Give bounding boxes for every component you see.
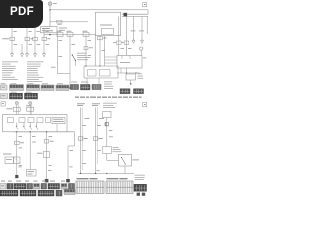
component pair label text bbox=[3, 153, 12, 156]
connector photo P1 bbox=[1, 85, 8, 90]
bottom-left connector row B1 bbox=[0, 190, 18, 196]
wire: vertical trunk x70 bbox=[69, 35, 71, 88]
wire: bottom horizontal fig2 bbox=[78, 172, 134, 174]
wire: fig2 elbow x74 bbox=[74, 132, 76, 146]
wire: fig2 sub-branch 4 bbox=[35, 123, 37, 127]
wire: fig2 vertical x46 bbox=[46, 132, 48, 179]
fuse F2 on bus bbox=[67, 33, 73, 37]
inline connector symbol bbox=[105, 123, 109, 126]
wire: left branch vertical 3 bbox=[34, 28, 36, 53]
net arrow branch 2 bbox=[141, 16, 143, 40]
fuse row box 4 bbox=[37, 118, 43, 123]
wire: tap horizontal 2 bbox=[105, 59, 118, 61]
connector photo P2 bbox=[10, 85, 24, 91]
node 2 figure marker right bbox=[143, 103, 147, 107]
bottom-left connector row B3 bbox=[38, 190, 54, 196]
node A4 off-page arrow bbox=[34, 52, 37, 57]
pinout table T1 bbox=[76, 181, 104, 193]
gauge box fig2 bbox=[103, 112, 112, 118]
wire code tick x17 bbox=[19, 164, 22, 167]
wire: main feed vertical from battery bbox=[49, 6, 51, 27]
bottom-left connector row B2 bbox=[20, 190, 36, 196]
fuse F4 left branch bbox=[10, 37, 15, 40]
fuse F1 on bus bbox=[57, 33, 63, 37]
wire: fig2 sub-branch 3 bbox=[29, 123, 31, 127]
wire: fig2 vertical x30 lower bbox=[29, 132, 31, 170]
motor label text bbox=[135, 174, 145, 177]
bottom-left connector row A8 bbox=[61, 184, 67, 190]
starter internal contact bbox=[122, 158, 126, 164]
wire: relay drop to diode line bbox=[120, 68, 122, 73]
bottom-left connector row A1 bbox=[0, 184, 6, 190]
motor terminal lug 1 bbox=[137, 193, 140, 196]
connector C-31 inline bbox=[117, 41, 122, 44]
switch S2 fig2 bbox=[23, 126, 25, 129]
fusible link symbol above x30 bbox=[29, 101, 32, 104]
fuse row box 5 bbox=[46, 118, 51, 123]
PDF badge overlay bbox=[0, 0, 43, 28]
mid connector photo Q2 bbox=[81, 85, 91, 90]
wire: fig2 left vertical pair 1 bbox=[16, 105, 18, 115]
fuse row box 1 bbox=[8, 118, 14, 123]
relay K2 internal tick 1 bbox=[121, 56, 123, 60]
connector C-12 inline bbox=[84, 47, 88, 50]
wire: vertical trunk x57 bbox=[56, 33, 58, 74]
switch S4 fig2 bbox=[36, 126, 38, 129]
wire: left branch vertical 1 bbox=[11, 28, 13, 53]
connector C-23 inline label bbox=[57, 20, 63, 23]
gauge text block fig2 bbox=[103, 102, 117, 105]
bottom-left connector row A2 bbox=[7, 184, 13, 190]
wire: tap horizontal 1 bbox=[105, 56, 118, 58]
connector photo P7 label bbox=[11, 91, 17, 94]
note text block mid bbox=[104, 81, 112, 84]
node 2 figure marker left bbox=[1, 102, 5, 106]
wire: right vertical 2 bbox=[126, 16, 128, 55]
bottom-left connector row A7 bbox=[48, 184, 60, 190]
wire: gauge drop bbox=[106, 118, 108, 147]
connector label C-05 bbox=[51, 66, 56, 69]
bottom-left connector row B4 bbox=[56, 190, 62, 196]
wire: extra left branch vertical bbox=[21, 44, 23, 53]
wire: vertical trunk x100 bbox=[99, 36, 101, 66]
junction block comb top bus bbox=[122, 13, 148, 15]
wire tick label bottom bbox=[96, 169, 99, 172]
wire: fig2 right vertical pair A bbox=[80, 108, 82, 174]
connector photo P3 label bbox=[28, 82, 34, 85]
wire: elbow to x70 bbox=[57, 73, 70, 75]
bottom label row bbox=[1, 180, 65, 183]
relay K1 inner coil box bbox=[102, 29, 114, 35]
junction dots lower bbox=[126, 72, 127, 73]
wire code labels scattered fig2 bbox=[19, 125, 113, 167]
connector photo P6 bbox=[1, 94, 8, 99]
wire: switch drop to box bbox=[75, 61, 77, 66]
wire: right vertical to relay bbox=[118, 16, 120, 55]
bottom-left connector row A4 bbox=[27, 184, 33, 190]
wire: left branch vertical 4 bbox=[43, 28, 45, 53]
node A1 off-page arrow bbox=[11, 52, 14, 57]
node 1 figure marker bbox=[143, 3, 147, 7]
connector label x40 bbox=[37, 152, 43, 155]
mid connector photo Q1 bbox=[71, 85, 79, 90]
connector photo P5 label bbox=[57, 82, 63, 85]
bottom-left connector row A5 bbox=[34, 184, 40, 190]
wire: comb pin far right bbox=[146, 16, 148, 34]
junction dot x70 bottom bbox=[69, 87, 71, 89]
ignition switch SW1 bbox=[72, 55, 75, 60]
wire code label x30 bbox=[32, 141, 36, 144]
wire: top bus right drop bbox=[147, 10, 149, 14]
battery B+ feed symbol bbox=[48, 2, 52, 6]
junction ticks bottom bbox=[80, 173, 81, 174]
fuse F5 left branch bbox=[25, 37, 30, 40]
junction block J/B box bbox=[84, 66, 118, 78]
wire: vertical trunk x86 bbox=[85, 35, 87, 66]
connector photo P2 label bbox=[11, 82, 17, 85]
wire: to starter bbox=[106, 154, 108, 161]
wire: fig2 sub-branch 2 bbox=[23, 123, 25, 127]
relay K1 internal label bbox=[100, 24, 112, 27]
wire: top horizontal bus to right edge bbox=[50, 9, 148, 11]
bottom-left connector row B5 bbox=[64, 189, 75, 195]
relay box K2 outline bbox=[117, 56, 142, 69]
net label above pair A bbox=[77, 102, 85, 105]
connector photo P3 bbox=[27, 85, 40, 91]
ignition switch label text bbox=[77, 52, 87, 55]
node A5 off-page arrow bbox=[43, 52, 46, 57]
fuse row box 2 bbox=[19, 118, 25, 123]
wire: ring drop bbox=[140, 50, 142, 55]
node A3 off-page arrow bbox=[26, 52, 29, 57]
terminal square x68 bbox=[66, 179, 70, 182]
terminal square x46 bbox=[45, 179, 49, 182]
label box inline bbox=[52, 118, 65, 124]
terminal square x17 bbox=[15, 175, 18, 178]
component box U1 bbox=[5, 157, 14, 164]
wire: tap horizontal 3 bbox=[105, 62, 118, 64]
pinout table T1 caption bbox=[77, 178, 89, 179]
switch S1 fig2 bbox=[16, 126, 18, 129]
junction dot bus/feed bbox=[49, 34, 51, 36]
mid connector photo Q2 label bbox=[81, 81, 88, 84]
wire: JB stub 2 bbox=[98, 78, 100, 84]
dark tap mark bbox=[124, 13, 128, 17]
fusible link box FL1 bbox=[41, 27, 58, 33]
connector C-32 inline bbox=[124, 41, 129, 44]
relay K3 fig2 bbox=[14, 157, 21, 164]
relay K2 internal tick 2 bbox=[129, 56, 131, 60]
junction dots on box top bbox=[85, 65, 86, 66]
junction block inner box 2 bbox=[100, 70, 111, 77]
component box small x30 bbox=[27, 170, 37, 177]
pinout table T2 caption bbox=[107, 178, 119, 179]
fuse F13 bbox=[78, 137, 83, 140]
connector photo P5 bbox=[56, 85, 69, 90]
fuse F7 bbox=[98, 36, 103, 39]
connector photo P8 bbox=[25, 93, 38, 99]
motor M4 connector cluster bbox=[134, 184, 147, 191]
wire: starter to bottom stub bbox=[124, 166, 126, 173]
motor terminal lug 2 bbox=[142, 193, 145, 196]
wire code labels scattered fig1 bbox=[14, 31, 147, 58]
fuse F6 left branch bbox=[42, 37, 47, 40]
connector view CV-a bbox=[120, 89, 130, 94]
fuse F5b left branch bbox=[33, 37, 38, 40]
starter motor box M3 bbox=[119, 155, 132, 167]
junction dots fig2 main bbox=[16, 131, 17, 132]
bottom-left connector row A3 bbox=[14, 184, 26, 190]
fuse F3 on bus bbox=[83, 33, 89, 37]
footnote text line bbox=[75, 97, 142, 98]
wire: second feed branch horizontal bbox=[50, 21, 88, 23]
bottom-left connector row A6 bbox=[41, 184, 47, 190]
pinout table T2 bbox=[106, 181, 133, 193]
wire: fig2 main horizontal (box bottom bus) bbox=[13, 131, 75, 133]
wire: JB stub 1 bbox=[86, 78, 88, 84]
wire: fig2 sub-branch 1 bbox=[16, 123, 18, 127]
connector photo P7 bbox=[10, 93, 23, 99]
node A2 off-page arrow bbox=[21, 52, 24, 57]
fusible link ring symbol bbox=[140, 47, 143, 50]
wire: fig2 vertical x17 lower bbox=[16, 132, 18, 175]
inline connector x46 bbox=[44, 152, 50, 158]
wire labels mid bbox=[85, 117, 90, 120]
mid connector photo Q1 label bbox=[71, 81, 77, 84]
junction block big box fig2 bbox=[3, 115, 68, 132]
starter label bbox=[133, 159, 140, 162]
relay box K1 outline bbox=[96, 12, 121, 36]
wire: label box drop bbox=[56, 124, 58, 132]
bottom-left connector row A9 bbox=[69, 184, 75, 190]
wire: diode stub bbox=[130, 80, 132, 83]
wire code tick x46 bbox=[48, 169, 51, 172]
fuse F8 fig2 bbox=[13, 107, 20, 111]
fuse F10 bbox=[15, 141, 20, 144]
wire code label x107 bbox=[109, 135, 113, 138]
resistor box R1 fig2 bbox=[103, 147, 112, 154]
switch S3 fig2 bbox=[29, 126, 31, 129]
net label column middle-left bbox=[27, 61, 44, 64]
wire: fig2 left vertical pair 2 bbox=[29, 105, 31, 115]
net label column left bbox=[2, 61, 18, 64]
fusible link symbol above x17 bbox=[15, 101, 18, 104]
connector photo P4 bbox=[41, 85, 54, 90]
relay K2 internal label bbox=[120, 61, 130, 64]
wire: lower horizontal 1 bbox=[117, 72, 140, 74]
net label above pair B bbox=[92, 102, 100, 105]
mid connector photo Q3 bbox=[92, 85, 101, 90]
fuse F14 bbox=[93, 137, 98, 140]
junction block inner box 1 bbox=[88, 70, 97, 77]
note text block right bbox=[138, 73, 143, 76]
connector photo P8 label bbox=[26, 91, 32, 94]
wire: left branch vertical 2 bbox=[26, 28, 28, 53]
wire: vertical trunk x104 bbox=[104, 36, 106, 66]
connector photo P4 label bbox=[42, 82, 48, 85]
connector photo P1 label bbox=[1, 82, 6, 85]
wire: main fuse bus horizontal bbox=[44, 34, 96, 36]
fuse F9 fig2 bbox=[27, 107, 34, 111]
wire: fig2 right vertical pair B bbox=[95, 108, 97, 174]
connector view CV-b bbox=[134, 89, 144, 94]
diode box D1 bbox=[126, 74, 136, 80]
net arrow branch 1 bbox=[133, 16, 135, 40]
fusible link label right of FL1 bbox=[59, 27, 67, 30]
wire: fig2 vertical x68 bbox=[67, 146, 69, 179]
wire: vertical trunk x95 bbox=[94, 36, 96, 66]
fuse F12 bbox=[44, 140, 49, 143]
fuse row box 3 bbox=[28, 118, 34, 123]
wire: relay to lower bbox=[126, 68, 128, 73]
